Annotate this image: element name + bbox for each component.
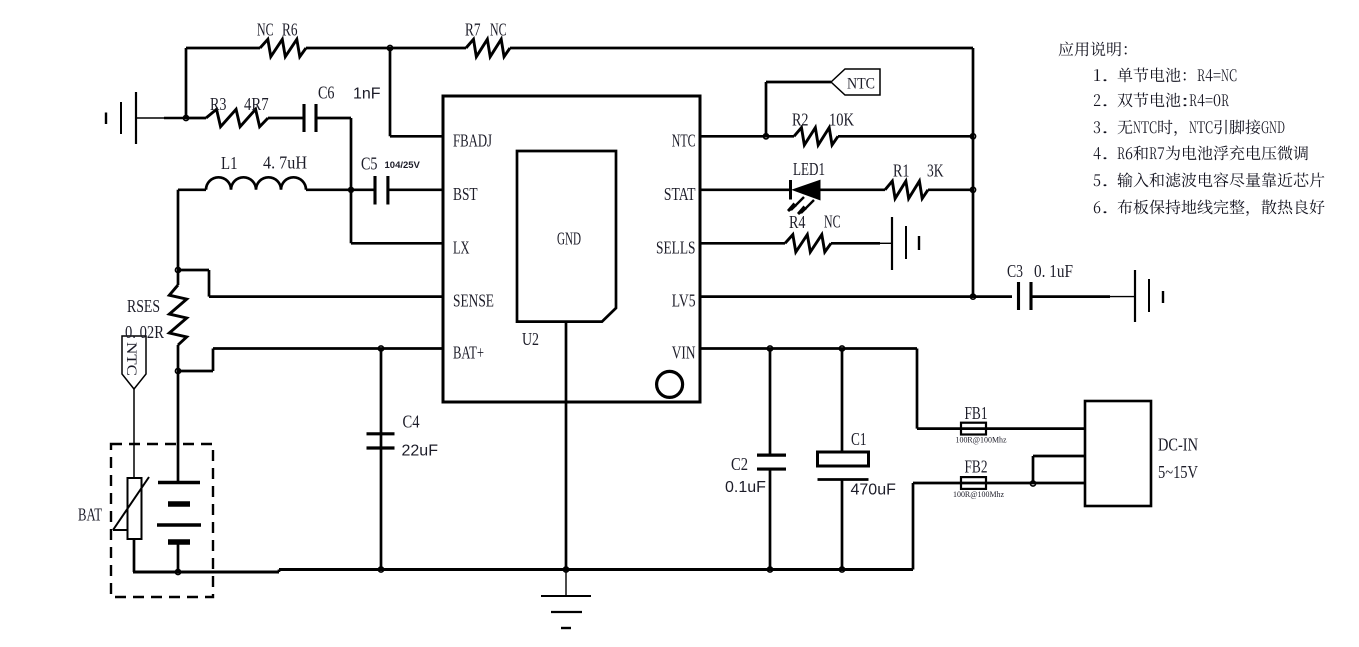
svg-text:0. 02R: 0. 02R	[125, 322, 164, 342]
svg-text:470uF: 470uF	[851, 482, 897, 499]
svg-text:U2: U2	[522, 329, 539, 349]
svg-text:100R@100Mhz: 100R@100Mhz	[956, 435, 1007, 445]
svg-text:STAT: STAT	[664, 184, 696, 204]
svg-text:GND: GND	[557, 229, 581, 249]
svg-text:LV5: LV5	[672, 291, 696, 311]
svg-text:LX: LX	[453, 237, 470, 257]
svg-text:FB2: FB2	[965, 457, 988, 477]
svg-text:L1: L1	[221, 153, 238, 173]
svg-text:C6: C6	[318, 83, 335, 103]
svg-text:0. 1uF: 0. 1uF	[1034, 261, 1073, 281]
svg-text:R6: R6	[282, 20, 298, 40]
svg-text:NC: NC	[490, 20, 507, 40]
svg-text:NTC: NTC	[847, 76, 875, 93]
svg-text:R3: R3	[210, 94, 227, 114]
svg-text:10K: 10K	[829, 110, 854, 130]
svg-text:NTC: NTC	[123, 342, 139, 376]
svg-text:SENSE: SENSE	[453, 291, 494, 311]
svg-text:R2: R2	[792, 110, 809, 130]
svg-text:4. 7uH: 4. 7uH	[263, 153, 307, 173]
svg-text:R1: R1	[893, 161, 910, 181]
svg-text:R7: R7	[465, 20, 481, 40]
svg-text:1nF: 1nF	[353, 86, 381, 103]
svg-text:104/25V: 104/25V	[385, 160, 421, 171]
svg-text:5~15V: 5~15V	[1158, 462, 1198, 482]
svg-text:BAT: BAT	[78, 505, 102, 525]
svg-text:0.1uF: 0.1uF	[725, 479, 766, 496]
svg-text:NC: NC	[824, 212, 841, 232]
svg-text:NTC: NTC	[672, 130, 696, 150]
svg-text:LED1: LED1	[793, 159, 825, 179]
svg-text:BAT+: BAT+	[453, 343, 484, 363]
svg-text:3K: 3K	[927, 161, 944, 181]
svg-text:BST: BST	[453, 184, 478, 204]
svg-text:NC: NC	[257, 20, 274, 40]
svg-text:22uF: 22uF	[402, 443, 439, 460]
svg-text:DC-IN: DC-IN	[1158, 435, 1198, 455]
svg-text:C2: C2	[731, 454, 748, 474]
svg-text:4R7: 4R7	[244, 94, 269, 114]
svg-text:C3: C3	[1007, 261, 1023, 281]
svg-text:C1: C1	[851, 429, 867, 449]
svg-text:VIN: VIN	[672, 343, 696, 363]
svg-text:FB1: FB1	[965, 403, 988, 423]
svg-text:R4: R4	[789, 212, 806, 232]
svg-text:RSES: RSES	[127, 296, 160, 316]
svg-text:SELLS: SELLS	[656, 237, 696, 257]
svg-text:FBADJ: FBADJ	[453, 130, 492, 150]
svg-text:C4: C4	[403, 412, 420, 432]
svg-text:100R@100Mhz: 100R@100Mhz	[953, 489, 1004, 499]
svg-text:C5: C5	[361, 154, 378, 174]
